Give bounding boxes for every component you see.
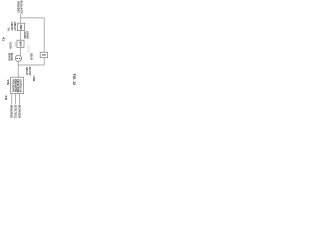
output wire 2: [15, 94, 17, 105]
svg-text:MEASURESIG: MEASURESIG: [10, 105, 14, 119]
svg-text:AMPLIFY: AMPLIFY: [13, 22, 17, 31]
svg-text:DRIVE: DRIVE: [26, 31, 30, 39]
filter U2 lead tick: [15, 42, 17, 47]
svg-text:MODULATOR: MODULATOR: [20, 1, 24, 14]
svg-text:DISTANCE34: DISTANCE34: [18, 105, 22, 118]
filter U2 box: [17, 40, 24, 47]
svg-text:41: 41: [1, 37, 5, 42]
svg-text:FIG. 12: FIG. 12: [72, 74, 76, 85]
output wire 3: [19, 94, 21, 105]
wire delay to mixer junction: [18, 64, 44, 66]
wire delay box down: [43, 58, 45, 65]
output wire 1: [11, 94, 13, 105]
mixer U3 dot right: [19, 58, 20, 59]
wire U2 to mixer: [19, 48, 21, 56]
wire delay branch vertical: [43, 18, 45, 52]
delay U4 box: [40, 52, 47, 57]
svg-text:BALANCE: BALANCE: [10, 53, 14, 61]
wire mixer down to processor: [17, 62, 19, 78]
svg-text:AMP: AMP: [19, 25, 23, 30]
svg-text:BPF: BPF: [19, 41, 23, 47]
processor U5 box: [11, 77, 24, 93]
delay U4 dash symbol: [42, 54, 46, 56]
svg-text:DELAYED: DELAYED: [28, 67, 32, 76]
svg-text:DETECTED12: DETECTED12: [14, 105, 18, 118]
amplifier U1 box: [17, 23, 24, 30]
mixer U3 circle: [15, 55, 21, 61]
svg-text:78: 78: [4, 95, 8, 101]
wire from input node down: [20, 14, 22, 23]
svg-text:FILTER: FILTER: [8, 42, 12, 49]
wire U1 to U2: [20, 31, 22, 41]
svg-text:BAND: BAND: [27, 46, 30, 53]
svg-text:76: 76: [6, 79, 10, 86]
svg-text:CONTROLLER: CONTROLLER: [18, 79, 22, 92]
mixer U3 dot left: [17, 58, 18, 59]
svg-text:LINE: LINE: [32, 76, 36, 82]
wire branch to delay path: [21, 17, 45, 19]
svg-text:70: 70: [7, 27, 11, 31]
svg-text:DELAY: DELAY: [29, 53, 33, 60]
